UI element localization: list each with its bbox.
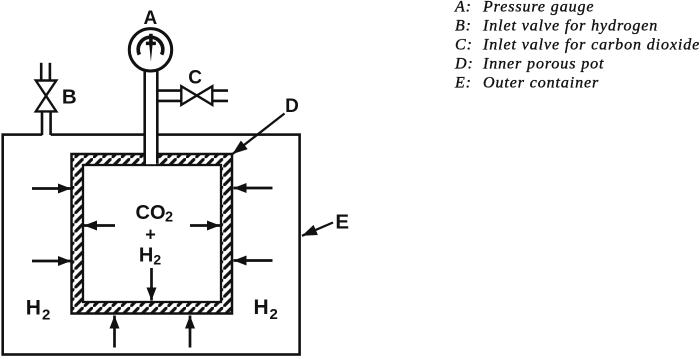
svg-text:2: 2: [165, 210, 173, 226]
svg-text:Inlet valve for carbon dioxide: Inlet valve for carbon dioxide: [482, 37, 700, 54]
svg-text:C: C: [188, 67, 202, 88]
svg-text:B: B: [62, 86, 77, 109]
svg-text:Outer container: Outer container: [483, 75, 599, 92]
svg-text:2: 2: [153, 252, 161, 268]
svg-text:D: D: [285, 96, 299, 117]
svg-text:A: A: [144, 8, 158, 29]
svg-text:H: H: [26, 296, 41, 319]
svg-text:Inlet valve for hydrogen: Inlet valve for hydrogen: [482, 18, 658, 35]
svg-text:+: +: [145, 225, 156, 245]
svg-text:2: 2: [270, 306, 278, 323]
svg-text:H: H: [254, 296, 269, 319]
svg-text:Pressure gauge: Pressure gauge: [482, 0, 594, 16]
svg-text:A:: A:: [454, 0, 472, 16]
svg-text:B:: B:: [455, 18, 472, 35]
svg-text:Inner porous pot: Inner porous pot: [482, 56, 604, 73]
svg-text:E: E: [335, 211, 349, 234]
svg-text:CO: CO: [136, 202, 166, 224]
svg-text:E:: E:: [454, 75, 472, 92]
svg-text:H: H: [139, 244, 153, 266]
svg-text:2: 2: [42, 307, 50, 324]
svg-text:C:: C:: [455, 37, 473, 54]
svg-text:D:: D:: [454, 56, 474, 73]
